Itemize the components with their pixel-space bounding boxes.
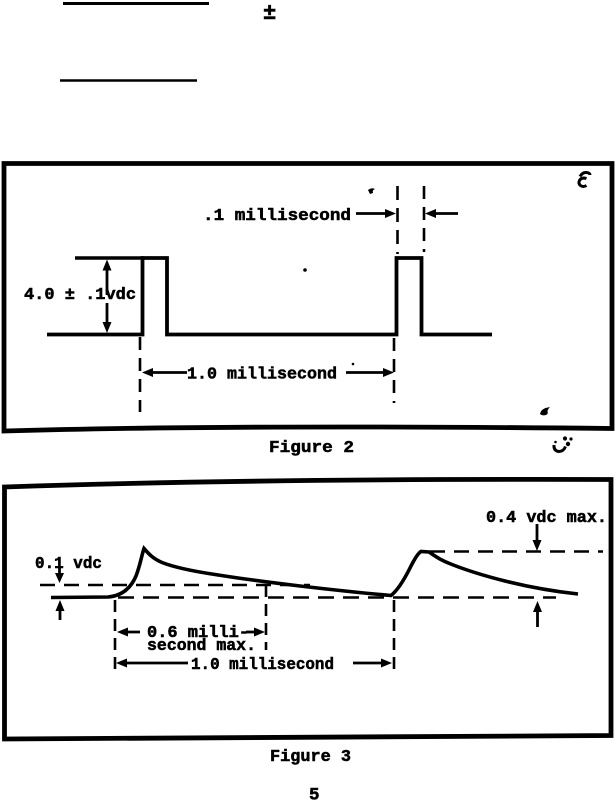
pulse top reference line bbox=[75, 256, 144, 260]
dashed vertical 0.6 ms end bbox=[265, 585, 268, 650]
underline top-left bbox=[63, 2, 209, 5]
dimension arrow right 1.0 ms bbox=[346, 371, 386, 374]
svg-text:4.0 ± .1vdc: 4.0 ± .1vdc bbox=[24, 286, 136, 305]
svg-text:second max.: second max. bbox=[147, 637, 256, 656]
underline second bbox=[60, 79, 197, 82]
dimension arrow right 0.6 ms bbox=[246, 631, 258, 634]
dashed line 0.1 vdc level bbox=[40, 584, 310, 587]
svg-text:1.0 millisecond: 1.0 millisecond bbox=[187, 366, 337, 385]
arrow left toward second dashed line bbox=[430, 212, 458, 215]
squiggle c mark top right bbox=[580, 172, 590, 176]
svg-text:5: 5 bbox=[309, 786, 320, 804]
figure 3 border box bbox=[5, 479, 612, 739]
figure 2 border box bbox=[4, 164, 612, 432]
dashed line pulse2 trailing edge upper bbox=[423, 186, 426, 252]
svg-text:Figure 2: Figure 2 bbox=[269, 439, 354, 458]
arrow down to 0.4 level bbox=[536, 524, 539, 543]
tiny dot mark right of label bbox=[352, 363, 355, 366]
arrow up to baseline left bbox=[59, 607, 62, 620]
dashed line 0.4 vdc level bbox=[430, 550, 603, 553]
arrow up to baseline right bbox=[536, 610, 539, 627]
dashed vertical pulse1 start bbox=[114, 600, 117, 670]
svg-text:Figure 3: Figure 3 bbox=[270, 748, 351, 767]
dashed baseline figure 3 bbox=[118, 596, 556, 599]
dashed line pulse2 leading edge lower bbox=[393, 338, 396, 403]
dashed vertical pulse2 start bbox=[393, 600, 396, 672]
dimension arrow left 1.0 ms fig3 bbox=[116, 659, 127, 668]
pulse train waveform figure 2 bbox=[47, 258, 492, 335]
svg-text:0.4 vdc max.: 0.4 vdc max. bbox=[486, 509, 607, 528]
dashed line pulse1 leading edge lower bbox=[139, 337, 142, 412]
arrow down to 0.1 level bbox=[58, 567, 61, 575]
dot mark mid box bbox=[303, 268, 307, 272]
dimension arrow left 1.0 ms bbox=[142, 368, 153, 377]
squiggle mark bottom right in box bbox=[540, 407, 550, 415]
svg-text:1.0 millisecond: 1.0 millisecond bbox=[191, 656, 334, 675]
arrow right toward first dashed line bbox=[356, 212, 388, 215]
amplitude dimension arrow up bbox=[106, 268, 109, 295]
squiggle mark above label bbox=[368, 188, 375, 194]
svg-text:±: ± bbox=[263, 1, 276, 26]
sawtooth waveform figure 3 bbox=[51, 549, 578, 598]
amplitude dimension arrow down bbox=[106, 303, 109, 325]
dimension arrow right 1.0 ms fig3 bbox=[353, 662, 384, 665]
squiggle mark right of caption bbox=[554, 445, 566, 452]
dimension arrow left 0.6 ms bbox=[117, 628, 128, 637]
dashed line pulse2 leading edge upper bbox=[396, 186, 399, 254]
svg-text:0.1 vdc: 0.1 vdc bbox=[35, 555, 102, 574]
svg-text:.1 millisecond: .1 millisecond bbox=[203, 207, 351, 226]
